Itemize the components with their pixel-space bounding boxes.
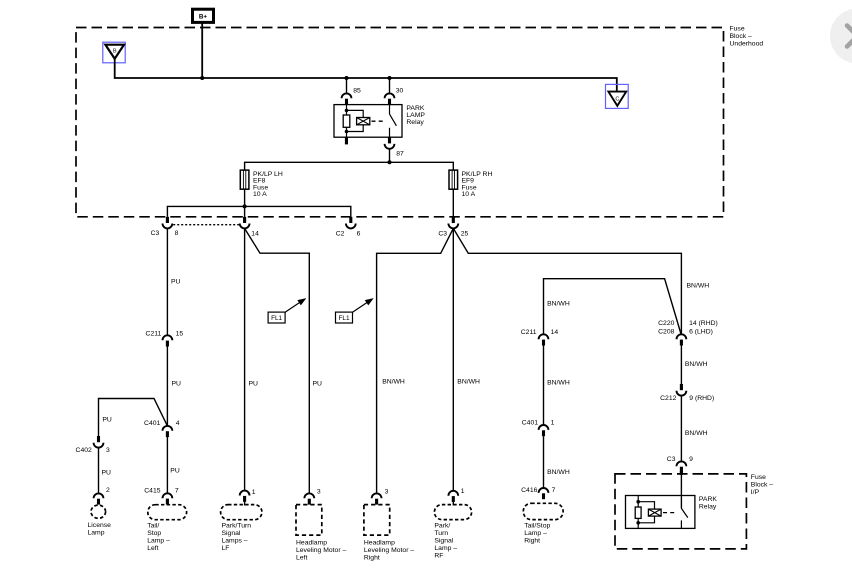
wire stub into LF lamp <box>244 502 246 506</box>
relay switch common wire <box>389 105 391 115</box>
fuse PK/LP LH EF8 <box>240 170 249 189</box>
park relay coil (box with X) <box>648 509 661 516</box>
svg-text:2: 2 <box>106 487 110 494</box>
junction 87 on feed <box>388 160 392 164</box>
junction EF8 branch <box>243 204 247 208</box>
fuse EF9 label <box>462 171 493 198</box>
svg-text:Turn: Turn <box>434 530 448 537</box>
svg-text:Underhood: Underhood <box>730 41 764 48</box>
svg-text:7: 7 <box>552 487 556 494</box>
svg-text:B+: B+ <box>199 13 208 20</box>
svg-text:10 A: 10 A <box>462 191 476 198</box>
svg-text:Right: Right <box>364 554 380 561</box>
connector pin 1 LF <box>240 491 250 502</box>
svg-text:C401: C401 <box>522 420 538 427</box>
connector pin 14 <box>240 217 250 229</box>
svg-text:Lamps –: Lamps – <box>222 537 248 544</box>
svg-text:PU: PU <box>249 380 259 387</box>
connector pin 30 <box>385 93 395 104</box>
svg-text:3: 3 <box>317 488 321 495</box>
close button (top right, partially cut) <box>830 9 852 64</box>
relay coil (box with X) <box>357 118 370 125</box>
svg-text:Right: Right <box>524 537 540 544</box>
junction below resistor <box>636 521 640 525</box>
connector pin 1 RF <box>448 491 458 502</box>
connector pin 85 <box>342 93 352 104</box>
Fuse Block Underhood label <box>730 26 764 48</box>
svg-text:87: 87 <box>396 151 404 158</box>
svg-text:C: C <box>615 96 619 102</box>
branch wire C3-25 to right side <box>453 228 681 334</box>
branch wire to tail/stop right <box>544 279 682 335</box>
svg-text:Block –: Block – <box>730 33 753 40</box>
svg-text:BN/WH: BN/WH <box>382 379 405 386</box>
Park/Turn Signal Lamp RF label <box>434 522 457 559</box>
label C3 9 <box>667 456 693 463</box>
svg-text:3: 3 <box>106 447 110 454</box>
License Lamp outline <box>91 505 106 518</box>
label C415 7 <box>144 488 179 495</box>
Headlamp Leveling Motor Left label <box>296 539 346 561</box>
junction B+ on bus <box>200 76 204 80</box>
svg-text:BN/WH: BN/WH <box>547 301 570 308</box>
svg-text:PU: PU <box>171 279 181 286</box>
fuse PK/LP RH EF9 <box>449 170 458 189</box>
wire C401-1 down to C416 <box>543 436 545 488</box>
Tail/Stop Lamp Left outline <box>148 505 187 520</box>
connector C415 pin 7 <box>163 493 173 504</box>
label C416 7 <box>521 487 555 494</box>
Tail/Stop Lamp Right outline <box>523 503 563 519</box>
svg-text:Fuse: Fuse <box>751 474 766 481</box>
svg-text:BN/WH: BN/WH <box>547 380 570 387</box>
branch wire pin14 to leveling motor left <box>245 228 310 493</box>
wire C211-14 down to C401 <box>543 345 545 425</box>
svg-text:6: 6 <box>357 230 361 237</box>
wire from B+ down to bus <box>201 23 203 78</box>
wire to relay pin 85 <box>346 78 348 93</box>
svg-text:C208: C208 <box>658 328 674 335</box>
svg-text:14: 14 <box>551 329 559 336</box>
svg-text:Leveling Motor –: Leveling Motor – <box>296 547 346 554</box>
connector C212 <box>677 384 687 396</box>
svg-text:10 A: 10 A <box>253 191 267 198</box>
Tail/Stop Lamp Left label <box>147 522 170 552</box>
connector pin 3 leveling motor left <box>304 493 314 504</box>
svg-text:14: 14 <box>251 230 259 237</box>
connector C402 pin 3 <box>94 436 104 448</box>
svg-text:FL1: FL1 <box>271 315 282 322</box>
Headlamp Leveling Motor Right label <box>364 539 414 561</box>
wire C211 down to C401 <box>166 346 168 426</box>
relay pin 87 connector <box>385 137 395 149</box>
junction below resistor <box>345 130 349 134</box>
wire pin 87 down to fuse feed <box>389 149 391 163</box>
wire C402 down <box>98 448 100 494</box>
svg-text:C212: C212 <box>660 395 676 402</box>
svg-text:C211: C211 <box>521 329 537 336</box>
triangle connector C <box>606 84 629 108</box>
battery feed B+ box <box>193 9 214 22</box>
relay switch blade <box>390 114 397 126</box>
PARK LAMP Relay label <box>406 105 425 126</box>
svg-text:Block –: Block – <box>751 482 774 489</box>
svg-text:BN/WH: BN/WH <box>547 469 570 476</box>
junction pin85 on bus <box>345 76 349 80</box>
wire C401 down to C415 <box>166 437 168 493</box>
park relay coil entry wire <box>637 496 639 508</box>
svg-text:C3: C3 <box>151 230 160 237</box>
svg-text:FL1: FL1 <box>338 315 349 322</box>
connector C401 pin 4 <box>163 426 173 437</box>
License Lamp label <box>88 522 112 537</box>
junction pin30 on bus <box>388 76 392 80</box>
wire below resistor <box>346 127 348 137</box>
Fuse Block Underhood dashed box <box>76 28 724 217</box>
svg-text:Left: Left <box>147 545 158 552</box>
label C401 1 <box>522 420 555 427</box>
svg-text:I/P: I/P <box>751 489 760 496</box>
wire below resistor <box>637 518 639 528</box>
relay resistor <box>343 115 350 127</box>
svg-text:C402: C402 <box>76 447 92 454</box>
svg-text:Tail/: Tail/ <box>147 522 159 529</box>
connector C3 pin 25 <box>448 217 458 229</box>
Park/Turn Signal Lamps LF outline <box>221 505 262 520</box>
svg-text:C401: C401 <box>144 420 160 427</box>
park relay coil-switch dashed link <box>663 512 677 514</box>
fuse EF8 label <box>253 171 283 198</box>
svg-text:Lamp: Lamp <box>88 529 105 536</box>
svg-text:Relay: Relay <box>699 503 717 510</box>
svg-text:15: 15 <box>176 331 184 338</box>
svg-text:9: 9 <box>689 456 693 463</box>
svg-text:BN/WH: BN/WH <box>687 283 710 290</box>
Headlamp Leveling Motor Left outline <box>296 505 322 535</box>
Headlamp Leveling Motor Right outline <box>364 505 390 535</box>
svg-text:1: 1 <box>252 489 256 496</box>
svg-text:C415: C415 <box>144 488 160 495</box>
svg-text:9 (RHD): 9 (RHD) <box>689 395 714 402</box>
PARK relay box <box>626 496 695 529</box>
park relay switch blade <box>681 508 687 517</box>
wire to relay pin 30 <box>389 78 391 93</box>
svg-text:30: 30 <box>396 88 404 95</box>
svg-text:C3: C3 <box>667 456 676 463</box>
svg-text:Lamp –: Lamp – <box>147 537 170 544</box>
junction in relay <box>345 109 349 113</box>
svg-text:14 (RHD): 14 (RHD) <box>689 320 718 327</box>
svg-text:Headlamp: Headlamp <box>364 539 395 546</box>
connector C211 pin 14 <box>539 334 549 345</box>
branch wire C3-25 to leveling motor right <box>377 228 454 493</box>
svg-text:8: 8 <box>175 230 179 237</box>
relay coil branch wire <box>346 105 348 115</box>
label C211 14 <box>521 329 559 336</box>
wire EF8 output <box>244 189 246 217</box>
relay switch output wire <box>389 128 391 137</box>
svg-text:Park/Turn: Park/Turn <box>222 522 252 529</box>
svg-text:Signal: Signal <box>434 537 453 544</box>
connector C401 pin 1 <box>539 425 549 436</box>
svg-text:License: License <box>88 522 112 529</box>
connector C3 pin 8 <box>163 217 173 229</box>
svg-text:Fuse: Fuse <box>730 26 745 33</box>
relay pin 86 stub <box>345 137 348 144</box>
svg-text:Relay: Relay <box>406 119 424 126</box>
wire into park relay <box>680 475 682 509</box>
svg-text:1: 1 <box>551 420 555 427</box>
FL1 callout right <box>336 299 373 323</box>
svg-text:Park/: Park/ <box>434 522 450 529</box>
wire: triangle B down and main bus to the right <box>115 59 617 92</box>
relay coil loop wires <box>347 110 364 117</box>
park relay resistor <box>635 507 641 518</box>
connector pin 2 <box>94 493 104 504</box>
fuse feed distribution wire <box>245 162 454 170</box>
svg-text:BN/WH: BN/WH <box>685 430 708 437</box>
wire C3-25 down to Park/Turn RF <box>452 228 454 490</box>
PARK LAMP relay box <box>334 105 402 138</box>
svg-text:Lamp –: Lamp – <box>524 530 547 537</box>
label C211 15 <box>146 331 184 338</box>
svg-text:PU: PU <box>102 470 112 477</box>
FL1 callout left <box>268 299 305 323</box>
label C212 9(RHD) <box>660 395 714 402</box>
EF8 output branch wire <box>167 206 350 216</box>
svg-text:Signal: Signal <box>222 530 241 537</box>
connector C220/C208 <box>677 334 687 345</box>
svg-text:C416: C416 <box>521 487 537 494</box>
svg-text:PU: PU <box>313 380 323 387</box>
Park/Turn Signal Lamps LF label <box>222 522 252 552</box>
connector C416 pin 7 <box>539 488 549 499</box>
junction in park relay <box>636 500 640 504</box>
svg-text:LAMP: LAMP <box>406 112 425 119</box>
svg-text:Left: Left <box>296 554 307 561</box>
Park/Turn Signal Lamp RF outline <box>434 505 471 520</box>
label C402 3 <box>76 447 110 454</box>
wire EF9 output <box>452 189 454 217</box>
svg-text:Stop: Stop <box>147 530 161 537</box>
svg-text:BN/WH: BN/WH <box>685 361 708 368</box>
wire pin14 down to Park/Turn LF <box>244 228 246 490</box>
svg-text:Tail/Stop: Tail/Stop <box>524 522 550 529</box>
svg-text:3: 3 <box>385 488 389 495</box>
connector C2 pin 6 <box>346 217 356 229</box>
svg-text:PU: PU <box>172 380 182 387</box>
svg-text:4: 4 <box>176 420 180 427</box>
park relay switch output wire <box>680 520 682 528</box>
wire C3-8 down to C211 <box>166 228 168 335</box>
svg-text:PARK: PARK <box>406 105 424 112</box>
PARK Relay label <box>699 496 717 510</box>
svg-text:C2: C2 <box>336 230 345 237</box>
svg-text:PARK: PARK <box>699 496 717 503</box>
svg-text:PU: PU <box>102 417 112 424</box>
connector C211 pin 15 <box>163 335 173 346</box>
branch wire to license lamp <box>99 399 168 437</box>
label C3 8 <box>151 230 179 237</box>
wire C220 down to C212 <box>680 345 682 384</box>
svg-text:C211: C211 <box>146 331 162 338</box>
label C220 C208 14(RHD) 6(LHD) <box>658 320 718 335</box>
Fuse Block I/P dashed box <box>615 474 746 549</box>
svg-text:Headlamp: Headlamp <box>296 539 327 546</box>
pin stub at I/P box edge <box>680 471 683 475</box>
svg-text:LF: LF <box>222 545 230 552</box>
connector C3 pin 9 <box>677 461 687 472</box>
Tail/Stop Lamp Right label <box>524 522 550 544</box>
label C401 4 <box>144 420 180 427</box>
svg-text:6 (LHD): 6 (LHD) <box>689 328 713 335</box>
wire stub into RF lamp <box>452 502 454 506</box>
svg-text:Leveling Motor –: Leveling Motor – <box>364 547 414 554</box>
svg-text:RF: RF <box>434 552 443 559</box>
wire C212 down to C3-9 <box>680 396 682 462</box>
svg-text:85: 85 <box>353 88 361 95</box>
connector pin 3 leveling motor right <box>372 493 382 504</box>
Fuse Block I/P label <box>751 474 774 496</box>
svg-text:PU: PU <box>170 468 180 475</box>
label C3 25 <box>438 230 468 237</box>
svg-text:Lamp –: Lamp – <box>434 545 457 552</box>
svg-text:C220: C220 <box>658 320 674 327</box>
svg-text:1: 1 <box>461 488 465 495</box>
svg-text:7: 7 <box>175 488 179 495</box>
svg-text:C3: C3 <box>438 230 447 237</box>
triangle connector B <box>103 42 125 63</box>
svg-text:BN/WH: BN/WH <box>457 379 480 386</box>
label C2 6 <box>336 230 361 237</box>
svg-text:25: 25 <box>461 230 469 237</box>
dotted tie wire C3-8 to 14 <box>173 224 239 226</box>
svg-text:B: B <box>113 49 117 55</box>
park relay coil loop wires <box>638 502 654 509</box>
relay coil-switch dashed link <box>372 120 386 122</box>
